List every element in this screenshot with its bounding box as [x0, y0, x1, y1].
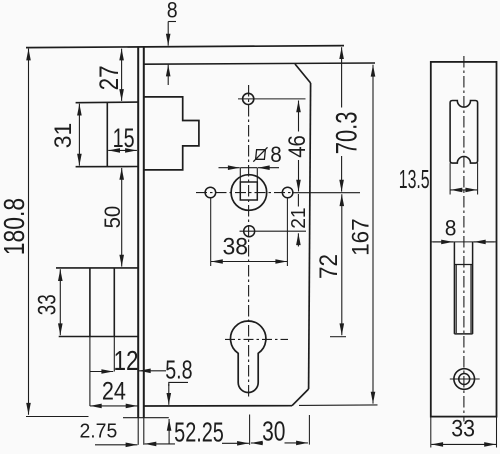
- svg-text:33: 33: [33, 294, 61, 315]
- dim 167 line: [372, 65, 374, 404]
- dim 52.25 right arrow: [222, 442, 249, 444]
- dim 8 slot left arrow: [433, 241, 453, 243]
- svg-text:8: 8: [445, 216, 457, 240]
- dim 12 line: [90, 371, 113, 373]
- case bottom extension to 167 dim: [299, 404, 378, 407]
- dim 180.8 bottom extension: [26, 416, 89, 418]
- dim 38 line: [211, 261, 287, 263]
- svg-text:13.5: 13.5: [399, 165, 430, 194]
- latch head box left edge: [106, 102, 108, 166]
- dim 38 extension right: [286, 198, 288, 266]
- case right edge: [309, 83, 311, 389]
- svg-text:5.8: 5.8: [165, 355, 192, 384]
- square dim arrow left: [219, 167, 240, 169]
- latch cutout extension right: [477, 163, 479, 194]
- screw hole line / 21 extension: [240, 230, 307, 232]
- svg-text:31: 31: [50, 123, 77, 149]
- euro profile cylinder hole: [230, 321, 265, 393]
- latch cutout extension left: [449, 163, 451, 194]
- screw hole inner circle: [459, 374, 470, 385]
- dim 21 lower segment with up arrow: [297, 233, 299, 246]
- dim 24 line: [90, 405, 138, 407]
- latch head box bottom edge: [76, 166, 138, 168]
- dim 8 arrow up: [167, 65, 169, 85]
- vertical centre bottom extension: [249, 415, 251, 445]
- case bottom-right chamfer: [292, 389, 309, 406]
- dim 38 extension left: [210, 198, 212, 266]
- deadbolt inner extension to 12 dim: [113, 337, 115, 372]
- deadbolt face divider: [455, 264, 473, 266]
- svg-text:27: 27: [95, 65, 124, 90]
- svg-text:180.8: 180.8: [0, 198, 30, 255]
- 5.8 leader bracket: [169, 382, 188, 386]
- dim 70.3 lower segment: [341, 156, 343, 192]
- screw hole outer circle: [454, 369, 475, 390]
- svg-text:52.25: 52.25: [174, 417, 224, 448]
- svg-text:46: 46: [283, 135, 310, 158]
- dim 8 arrow down: [167, 22, 169, 46]
- dim 30 right arrow: [285, 442, 308, 444]
- case bottom edge: [144, 405, 292, 407]
- dim 33 line: [59, 269, 61, 335]
- deadbolt box top edge: [56, 267, 139, 269]
- cylinder horizontal centre mark: [225, 338, 288, 340]
- square extension right: [256, 168, 258, 182]
- svg-text:72: 72: [315, 254, 343, 279]
- dim 50 line: [121, 168, 123, 267]
- latch head box top edge: [76, 101, 138, 104]
- faceplate centre line: [463, 56, 465, 422]
- dim 30 left arrow: [251, 442, 263, 444]
- dim 8 slot right arrow: [474, 241, 495, 243]
- svg-text:12: 12: [113, 346, 138, 377]
- dim 8 leader tick: [168, 21, 176, 23]
- latch bolt tail: [144, 97, 199, 170]
- dim 31 line: [78, 104, 80, 166]
- 5.8 arrow up to faceplate bottom: [168, 419, 170, 444]
- latch cutout with notches: [450, 101, 478, 164]
- vertical centre line: [248, 85, 250, 399]
- faceplate strip extension right: [143, 418, 145, 445]
- dim 180.8 line: [28, 49, 30, 415]
- square dim line: [240, 167, 257, 169]
- top hole circle: [243, 93, 254, 104]
- dim 33 extension left: [430, 417, 432, 448]
- latch cutout width arrows: [451, 189, 478, 191]
- case top-right chamfer: [295, 64, 311, 83]
- svg-text:24: 24: [102, 377, 126, 405]
- left follower side hole: [205, 187, 216, 198]
- dim 21 upper segment: [297, 194, 299, 207]
- follower square hole: [240, 182, 257, 200]
- deadbolt slot bottom: [454, 333, 472, 335]
- square symbol: [256, 150, 266, 160]
- arrow at faceplate for 12 / 5.8: [139, 370, 166, 372]
- case top edge: [26, 46, 344, 48]
- dim 46 lower segment: [298, 160, 300, 192]
- deadbolt box left edge: [89, 268, 91, 337]
- top hole axis line / 46 extension: [238, 98, 306, 100]
- dim 15 line: [108, 149, 137, 151]
- dim 72 line: [341, 194, 343, 335]
- deadbolt face right side: [470, 265, 472, 334]
- horizontal centre extension: [292, 192, 360, 194]
- svg-text:30: 30: [262, 417, 285, 448]
- svg-text:50: 50: [100, 206, 125, 229]
- svg-text:167: 167: [347, 218, 374, 256]
- svg-text:70.3: 70.3: [329, 112, 363, 155]
- faceplate strip back edge: [143, 47, 145, 419]
- faceplate strip front edge: [137, 47, 139, 418]
- square dim arrow right: [258, 167, 279, 169]
- screw hole crosshair: [450, 378, 480, 380]
- square symbol slash: [253, 147, 267, 161]
- dim 33 line: [431, 443, 496, 445]
- dim 8 slot line: [431, 241, 496, 243]
- svg-text:2.75: 2.75: [79, 420, 117, 443]
- svg-text:38: 38: [222, 233, 248, 261]
- square extension left: [239, 168, 241, 182]
- deadbolt slot right side: [472, 242, 474, 334]
- deadbolt box bottom edge: [59, 336, 139, 338]
- dim 52.25 left arrow: [145, 443, 176, 445]
- deadbolt face left side: [455, 265, 457, 334]
- dim 33 extension right: [496, 417, 498, 448]
- svg-text:8: 8: [270, 141, 282, 167]
- dim 70.3 upper segment: [341, 47, 343, 107]
- deadbolt left extension to 24 dim: [89, 337, 91, 407]
- cylinder screw hole: [244, 226, 255, 237]
- deadbolt slot left side: [453, 242, 455, 334]
- dim 30 right extension: [308, 415, 310, 445]
- faceplate bottom edge line: [123, 417, 169, 419]
- svg-text:15: 15: [113, 124, 135, 154]
- 72 dim bottom extension: [330, 336, 346, 338]
- svg-text:8: 8: [167, 0, 178, 23]
- faceplate front outline: [431, 62, 497, 417]
- faceplate strip extension left: [137, 418, 139, 445]
- 5.8 arrow down to case bottom: [168, 384, 170, 405]
- svg-text:21: 21: [287, 207, 310, 228]
- follower circle: [231, 175, 267, 211]
- horizontal centre line: [196, 192, 292, 194]
- case inner top line: [145, 63, 376, 64]
- right follower side hole: [282, 187, 293, 198]
- dim 2.75 arrow: [95, 444, 137, 446]
- dim 46 upper segment: [298, 101, 300, 132]
- svg-text:33: 33: [451, 414, 475, 442]
- dim 27 line: [121, 49, 123, 101]
- deadbolt inner vertical: [113, 268, 115, 337]
